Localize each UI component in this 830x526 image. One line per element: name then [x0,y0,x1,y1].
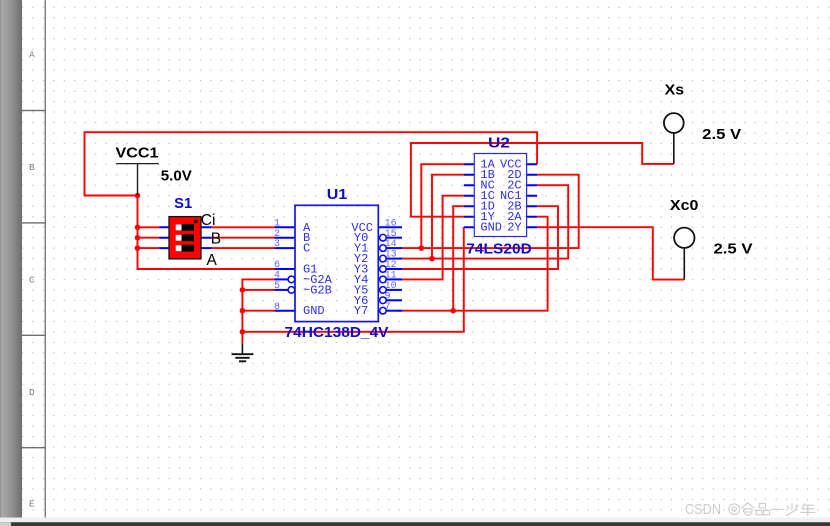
svg-text:Y7: Y7 [354,304,368,318]
watermark @ [729,504,740,515]
wire S1 row3 to U1 pin3 [211,247,275,249]
wire net Y1 branch to 1A [421,164,464,248]
svg-text:D: D [29,387,35,398]
svg-text:Xs: Xs [665,83,685,99]
power source VCC1 symbol [116,164,159,196]
wire S1 row3 left [138,247,161,249]
svg-text:74HC138D_4V: 74HC138D_4V [285,325,389,341]
ruler section line C/D [22,335,46,336]
U1 pin 6 stub [275,268,296,270]
bubble pin 9 [380,297,387,304]
svg-text:E: E [29,498,35,509]
junction S1 row1 [135,225,141,231]
svg-text:CSDN: CSDN [685,501,721,518]
U1 pin 9 stub [386,299,402,301]
wire VCC vertical to S1/G1 [138,195,275,270]
U2 left stubs [464,164,475,227]
svg-text:5: 5 [274,281,280,292]
svg-text:12: 12 [385,260,397,271]
wire net Y4 to 1C [399,196,464,280]
junction S1 row2 [135,235,141,241]
svg-text:4: 4 [274,271,280,282]
U1 inversion bubbles [288,234,386,314]
svg-text:7: 7 [385,302,391,313]
wire net Y3 to 2B [399,206,558,269]
wire ground net to pin5 [242,289,274,291]
bubble pin 11 [380,276,387,283]
svg-text:GND: GND [303,304,325,318]
U1 pin 1 stub [275,226,296,228]
svg-text:Ci: Ci [201,212,216,229]
svg-text:GND: GND [480,221,502,235]
svg-text:11: 11 [385,271,397,282]
bubble pin 15 [380,234,387,241]
watermark glyph pin [756,504,770,515]
svg-text:5.0V: 5.0V [161,169,192,185]
svg-text:2Y: 2Y [507,221,521,235]
svg-text:B: B [29,162,35,173]
bubble pin 5 [288,287,295,294]
U1 pin numbers [274,218,397,312]
svg-text:Xc0: Xc0 [670,198,699,214]
junction Y2/1B [429,256,435,262]
U1 pin 15 stub [386,237,402,239]
svg-text:1: 1 [274,218,280,229]
svg-text:10: 10 [385,281,397,292]
wire net Y2 branch to 1B [432,175,464,259]
svg-text:16: 16 [385,218,397,229]
wire S1 row2 left [138,237,161,239]
probe Xc0 [674,228,694,280]
wire ground net to pin8 [242,310,274,312]
svg-text:B: B [211,231,221,248]
svg-text:2: 2 [274,229,280,240]
U1 pin name labels [303,221,373,318]
S1 pin stubs left [159,227,169,248]
wire net Y2 to 2C [399,185,568,258]
junction ground pin8 [240,308,246,314]
U1 pin 11 stub [386,278,402,280]
bottom scrollbar strips [0,518,830,523]
svg-text:9: 9 [385,291,391,302]
wire S1 row1 to U1 pin1 [211,226,275,228]
U1 pin 16 stub [378,226,402,228]
ruler vertical border line [45,0,46,518]
svg-text:A: A [29,50,35,61]
svg-text:74LS20D: 74LS20D [466,241,532,257]
chip U2 74LS20D body [474,154,526,237]
U1 pin 7 stub [386,310,402,312]
junction dots [135,193,456,335]
wire net Y7 branch to 1D [453,206,464,311]
wire 1Y output to probe Xs [411,143,674,217]
bubble pin 14 [380,245,387,252]
U1 pin 3 stub [275,247,296,249]
probe Xs [664,113,684,164]
svg-text:S1: S1 [174,196,192,212]
svg-text:8: 8 [274,302,280,313]
U1 pin 8 stub [275,310,296,312]
S1 pin stubs right [201,227,212,248]
wire ground net to pin4 [242,279,274,343]
left ruler gradient strip [0,0,22,518]
bubble pin 10 [380,287,387,294]
svg-text:C: C [29,274,35,285]
svg-text:3: 3 [274,239,280,250]
ground symbol [232,343,254,361]
U1 pin 13 stub [386,258,402,260]
wire ground row to U2 GND [242,227,463,332]
switch S1 body [169,217,201,259]
junction Y7/1D [450,308,456,314]
wire S1 row2 to U1 pin2 [211,237,275,239]
chip U1 74HC138D body [295,205,378,321]
bubble pin 7 [380,307,387,314]
svg-text:~G2B: ~G2B [303,283,332,297]
wire net Y1 to 2D [399,175,579,248]
watermark glyph nian [801,503,815,516]
wire net Y7 to 2A [399,217,548,311]
svg-text:6: 6 [274,260,280,271]
U1 pin 14 stub [386,247,402,249]
watermark glyph shi [741,503,754,516]
svg-text:U2: U2 [488,136,510,152]
bubble pin 12 [380,266,387,273]
U1 pin 4 stub [275,278,289,280]
wire VCC1 rail to U2 VCC [85,132,538,196]
svg-text:U1: U1 [327,187,348,203]
svg-text:13: 13 [385,250,397,261]
svg-text:14: 14 [385,239,397,250]
U1 pin 12 stub [386,268,402,270]
svg-text:A: A [207,252,218,269]
junction ground row [240,329,246,335]
junction ground pin5 [240,287,246,293]
wire S1 row1 left [138,226,161,228]
watermark glyph shao [786,503,798,516]
ruler section line B/C [22,222,46,223]
svg-text:15: 15 [385,229,397,240]
svg-text:C: C [303,242,310,256]
U1 pin 5 stub [275,289,289,291]
bubble pin 13 [380,255,387,262]
U2 pin name labels [480,158,522,235]
ruler letters [29,50,35,510]
junction S1 row3 [135,245,141,251]
svg-text:2.5 V: 2.5 V [702,127,741,143]
U1 pin 2 stub [275,237,296,239]
svg-text:2.5 V: 2.5 V [714,242,753,258]
watermark glyph yi [771,508,784,510]
junction at VCC1 stem [135,193,141,199]
U2 right stubs [527,164,538,227]
bubble pin 4 [288,276,295,283]
svg-text:VCC1: VCC1 [116,146,159,162]
junction Y1/1A [419,245,425,251]
wire 2Y output to probe Xc0 [537,227,684,279]
ruler section line D/E [22,447,46,448]
U1 pin 10 stub [386,289,402,291]
ruler section line A/B [22,110,46,111]
